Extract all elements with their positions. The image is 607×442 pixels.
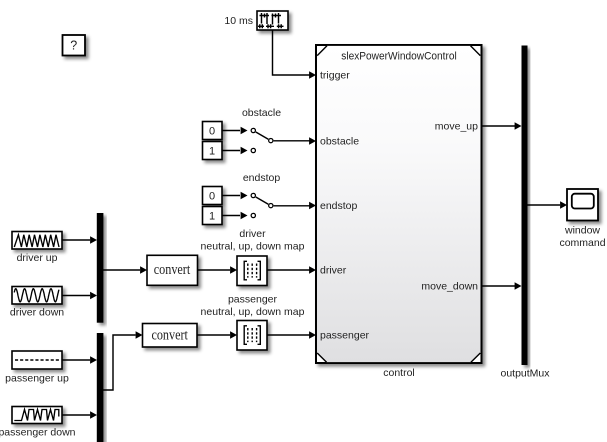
wire outputMux -> scope	[528, 204, 561, 206]
lookup table driver	[237, 256, 267, 286]
svg-text:driver: driver	[239, 228, 266, 240]
signal builder passenger up	[12, 351, 62, 369]
mux1 (driver)	[97, 213, 104, 323]
wire lookup passenger -> passenger port	[267, 334, 310, 336]
svg-text:move_down: move_down	[421, 280, 478, 292]
scope window command	[567, 189, 598, 221]
svg-text:neutral, up, down map: neutral, up, down map	[201, 240, 305, 252]
wire passenger up -> mux2	[62, 359, 90, 361]
svg-text:driver: driver	[320, 264, 347, 276]
svg-text:driver up: driver up	[17, 252, 58, 264]
svg-text:1: 1	[209, 211, 215, 223]
switch contact circles (obstacle)	[251, 128, 255, 132]
svg-text:1: 1	[209, 146, 215, 158]
svg-text:passenger up: passenger up	[5, 372, 69, 384]
chart block slexPowerWindowControl	[316, 45, 482, 363]
mux2 (passenger)	[97, 333, 104, 442]
svg-text:0: 0	[209, 126, 215, 138]
svg-text:command: command	[559, 237, 605, 249]
svg-text:passenger: passenger	[320, 329, 370, 341]
svg-text:slexPowerWindowControl: slexPowerWindowControl	[341, 51, 457, 63]
constant 0 (endstop)	[203, 187, 223, 205]
data type conversion 1	[147, 255, 198, 285]
signal builder driver down	[12, 287, 62, 305]
lookup table passenger	[237, 321, 267, 351]
svg-text:obstacle: obstacle	[242, 107, 281, 119]
wire const0 -> switch (endstop)	[222, 195, 240, 197]
svg-text:endstop: endstop	[320, 200, 358, 212]
svg-text:passenger down: passenger down	[0, 426, 76, 438]
wire lookup driver -> driver port	[267, 269, 310, 271]
wire const1 -> open contact (obstacle)	[222, 150, 240, 152]
outputMux bar	[522, 46, 528, 366]
svg-text:convert: convert	[151, 328, 188, 344]
signal builder passenger down	[12, 407, 62, 424]
svg-text:driver down: driver down	[10, 306, 64, 318]
wire 10ms -> trigger	[273, 31, 310, 76]
wire const1 -> open contact (endstop)	[222, 215, 240, 217]
wire mux1 -> convert1	[103, 269, 140, 271]
wire switch -> obstacle port	[274, 140, 310, 142]
svg-text:trigger: trigger	[320, 69, 350, 81]
svg-text:0: 0	[209, 191, 215, 203]
help block ?	[63, 35, 86, 56]
wire driver down -> mux1	[62, 295, 90, 297]
svg-text:window: window	[564, 224, 600, 236]
svg-text:endstop: endstop	[243, 172, 281, 184]
switch contact circles (endstop)	[251, 193, 255, 197]
data type conversion 2	[143, 324, 198, 348]
signal builder driver up	[12, 232, 62, 250]
svg-text:move_up: move_up	[435, 120, 478, 132]
wire driver up -> mux1	[62, 239, 90, 241]
wire convert2 -> lookup passenger	[197, 334, 230, 336]
wire const0 -> switch (obstacle)	[222, 130, 240, 132]
block 10 ms (function-call generator)	[257, 11, 288, 30]
constant 1 (obstacle)	[203, 142, 223, 160]
svg-text:obstacle: obstacle	[320, 135, 359, 147]
svg-text:outputMux: outputMux	[500, 367, 550, 379]
wire convert1 -> lookup driver	[198, 269, 231, 271]
svg-text:?: ?	[70, 39, 77, 53]
constant 0 (obstacle)	[203, 122, 223, 140]
corner notches	[317, 46, 480, 362]
svg-text:neutral, up, down map: neutral, up, down map	[201, 306, 305, 318]
constant 1 (endstop)	[203, 207, 223, 225]
wire move_down -> outputMux	[482, 285, 515, 287]
wire passenger down -> mux2	[62, 414, 90, 416]
svg-text:convert: convert	[154, 262, 191, 278]
wire move_up -> outputMux	[482, 125, 515, 127]
svg-text:control: control	[383, 367, 415, 379]
wire mux2 -> convert2	[103, 335, 136, 390]
wire switch -> endstop port	[274, 205, 310, 207]
svg-text:10 ms: 10 ms	[224, 15, 253, 27]
svg-text:passenger: passenger	[228, 293, 278, 305]
